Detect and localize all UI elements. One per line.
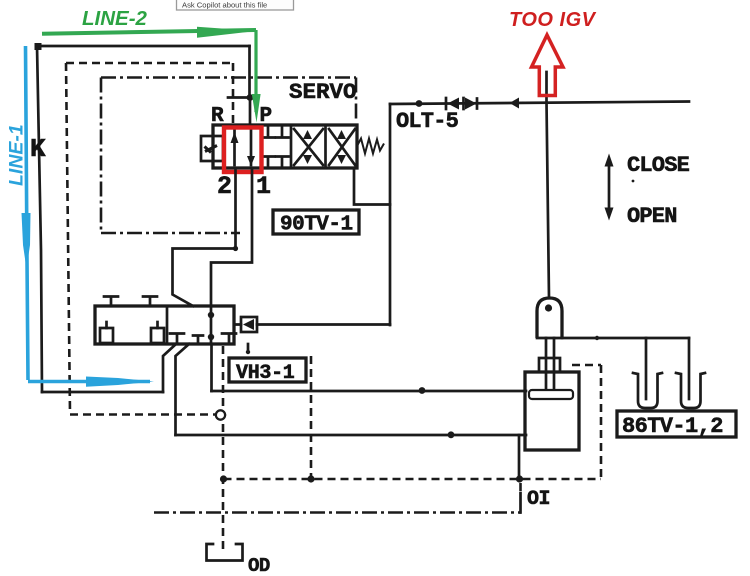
spring at right of 90TV-1 [357, 139, 384, 154]
wire: upper cylinder line [212, 390, 527, 393]
wire: port1 line through VH3-1 to cylinder line [210, 306, 213, 391]
wire: line from dome to test points [562, 337, 689, 340]
valve 90TV-1 cell3 X cross [294, 129, 323, 165]
annotation: LINE-1 right arrowhead [86, 377, 154, 387]
svg-text:CLOSE: CLOSE [627, 153, 690, 178]
label box VH3-1 [229, 358, 306, 382]
check valve pair on main line [446, 98, 477, 110]
node dots on drain header [220, 475, 227, 482]
label box 86TV-1,2 [617, 411, 736, 437]
node: dot on lower cylinder line [448, 431, 455, 438]
wire: port 2 line down from valve [173, 168, 236, 306]
wire: piston rod twin lines [546, 338, 554, 391]
valve 90TV-1 cell2 blocked port bottom-right T [276, 157, 289, 167]
wire: dash-dot enclosure left side [100, 78, 103, 234]
valve 90TV-1 divider 1 [260, 125, 263, 168]
label box 90TV-1 [273, 210, 359, 234]
valve 90TV-1 cell4 X cross [329, 129, 355, 165]
VH3-1 detent square left [100, 328, 113, 343]
wire: drop to drain node [518, 435, 521, 478]
wire: top supply line from node K area to P port [37, 45, 250, 48]
wire: right test point drop [688, 338, 691, 399]
svg-text:OPEN: OPEN [627, 204, 677, 229]
node: open circle junction [216, 410, 225, 419]
actuator dome (bullet) [537, 298, 562, 338]
valve 90TV-1 divider 2 [290, 125, 293, 168]
arrow on cell1 right line [247, 156, 255, 166]
svg-text:LINE-2: LINE-2 [82, 7, 148, 30]
annotation: LINE-2 green arrow line [42, 30, 256, 34]
svg-text:OLT-5: OLT-5 [396, 109, 459, 134]
svg-text:TOO IGV: TOO IGV [509, 9, 597, 31]
dash-dot bottom return line [154, 511, 521, 514]
wire: left test point drop [645, 338, 648, 399]
test point funnel left [633, 373, 662, 408]
svg-text:Ask Copilot about this file: Ask Copilot about this file [182, 1, 267, 10]
annotation: LINE-1 mid arrowhead pointing down [22, 213, 31, 269]
annotation: red hollow up arrow [532, 35, 564, 96]
annotation: LINE-2 arrowhead wedge [197, 27, 256, 38]
valve 90TV-1 cell1 flow line left [233, 128, 236, 165]
svg-text:1: 1 [256, 172, 271, 201]
dashed enclosure right side [600, 365, 603, 478]
dashed drop right of VH3-1 [310, 356, 313, 478]
svg-text:OD: OD [248, 555, 270, 576]
VH3-1 blocked port T right [222, 334, 236, 345]
wire: port 1 line down from valve [211, 168, 252, 306]
wire R: dashed vertical to valve R port [232, 63, 235, 125]
annotation: LINE-1 bottom horizontal line [28, 380, 150, 384]
piston bar [529, 390, 573, 399]
stub below valve [247, 344, 250, 352]
annotation: LINE-2 down arrowhead [252, 94, 261, 123]
arrow marker on main line [510, 98, 520, 109]
wire: OLT-5 riser vertical [389, 104, 392, 325]
rod gland block [539, 358, 560, 372]
wire R: dashed pilot rectangle top [66, 62, 233, 65]
tick on line [595, 336, 599, 340]
node: dot on main line [416, 100, 423, 107]
wire: lower cylinder line [176, 434, 527, 437]
arrows on cell3 cross [303, 130, 312, 139]
svg-text:86TV-1,2: 86TV-1,2 [622, 414, 723, 439]
arrows on cell4 cross [337, 130, 346, 139]
valve VH3-1 divider [166, 306, 169, 344]
wire: dash-dot enclosure bottom stub [101, 232, 240, 235]
valve 90TV-1 cell1 flow line right [250, 128, 253, 165]
valve 90TV-1 cell2 blocked port top-right T [276, 127, 289, 138]
node: corner blob on port2 line [233, 246, 238, 251]
wire: VH3-1 bottom port to K-line [163, 344, 176, 392]
valve 90TV-1 cell2 blocked port bottom-left T [262, 157, 275, 167]
wire: right vertical drop of top line [248, 46, 251, 97]
svg-text:OI: OI [527, 488, 550, 511]
svg-text:LINE-1: LINE-1 [6, 124, 28, 186]
drain tank OD symbol [207, 544, 243, 561]
wire: dashed bottom run to node circle [70, 413, 215, 416]
arrow on cell1 left line [231, 132, 239, 143]
wire: TOO IGV drop line to actuator [547, 72, 550, 298]
solenoid S stroke [205, 146, 218, 153]
wire: stub from R line to P junction [228, 96, 249, 99]
dashed drain drop from VH3-1 [222, 346, 225, 552]
VH3-1 blocked port T mid [170, 334, 184, 345]
wire: P port line into valve [249, 98, 252, 126]
node: corner junction dot top-left [35, 43, 42, 50]
VH3-1 blocked port T small [193, 336, 203, 345]
highlight: red box around active cell [224, 128, 262, 173]
cylinder body [525, 372, 579, 450]
wire: dash-dot servo enclosure top [101, 76, 356, 79]
wire: 90TV-1 right port to OLT riser [354, 168, 390, 205]
actuator dome bottom edge [537, 337, 562, 340]
svg-text:90TV-1: 90TV-1 [280, 214, 353, 237]
node: open circle redrawn over drain [216, 410, 225, 419]
wire: OLT-5 main horizontal line [390, 102, 689, 105]
svg-text:2: 2 [217, 172, 232, 201]
VH3-1 detent square right [151, 328, 164, 343]
VH3-1 pilot solenoid box [241, 317, 257, 332]
VH3-1 top pilot T right [143, 297, 157, 307]
node: junction dot above P port [247, 94, 254, 101]
valve 90TV-1 body [213, 125, 357, 168]
wire: dash-dot servo enclosure right drop [355, 78, 358, 122]
dash-dot end upturn [519, 493, 522, 513]
dashed drain header line [224, 478, 602, 481]
dashed enclosure top at cylinder [572, 364, 601, 367]
speck between labels [632, 180, 635, 183]
svg-text:VH3-1: VH3-1 [236, 362, 295, 385]
nodes on internal line [208, 312, 214, 318]
svg-text:SERVO: SERVO [289, 79, 357, 105]
valve 90TV-1 divider 3 [324, 125, 327, 168]
dashed stub below drain node [519, 483, 522, 493]
VH3-1 top pilot T left [104, 297, 118, 307]
valve VH3-1 body [95, 306, 234, 344]
tooltip "Ask Copilot about this file" [177, 0, 294, 10]
wire: left vertical line (K line) [37, 46, 42, 392]
annotation: LINE-1 blue vertical line [26, 46, 29, 380]
svg-text:K: K [30, 134, 46, 164]
wire: bottom horizontal of K line to VH3-1 [42, 391, 163, 394]
indicator: CLOSE/OPEN double arrow [605, 154, 614, 221]
test point funnel right [676, 373, 705, 408]
node: dot inside dome [545, 304, 552, 311]
wire: dashed left side down [66, 63, 70, 413]
node: dot on upper cylinder line [419, 387, 426, 394]
valve 90TV-1 cell2 blocked port top-left T [262, 127, 275, 138]
solenoid S box of 90TV-1 [201, 136, 223, 161]
annotation: LINE-2 green vertical drop [254, 30, 257, 112]
wire: VH3-1 bottom port to lower cylinder line [176, 344, 190, 435]
